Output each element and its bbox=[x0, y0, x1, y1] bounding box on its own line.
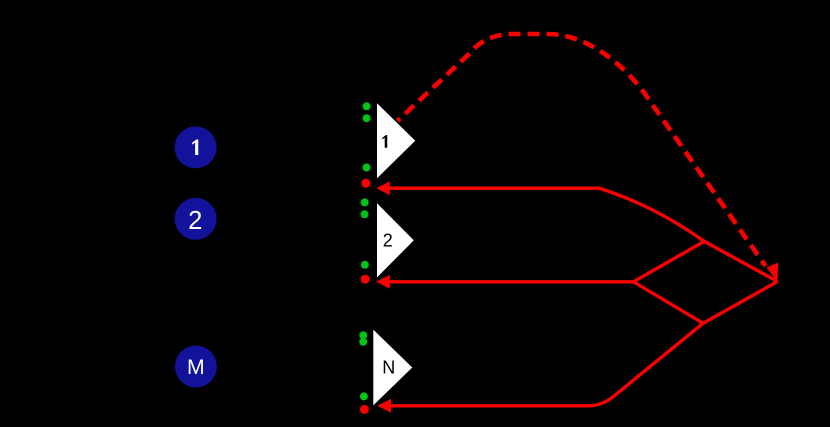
svg-text:2: 2 bbox=[188, 207, 202, 235]
svg-text:N: N bbox=[382, 358, 395, 378]
svg-text:M: M bbox=[187, 356, 205, 379]
svg-text:2: 2 bbox=[383, 230, 393, 250]
